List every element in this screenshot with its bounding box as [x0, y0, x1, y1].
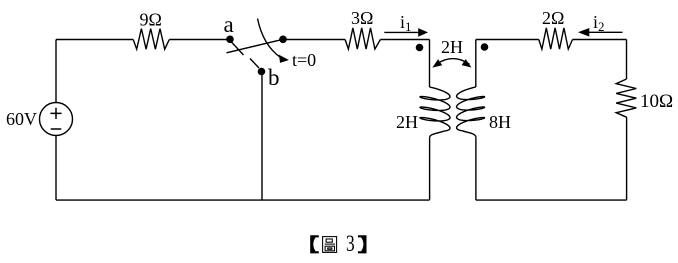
arrowhead switch arc: [279, 55, 289, 63]
wire 9ohm to node a: [169, 39, 227, 41]
arrowhead i2: [578, 28, 589, 37]
switch blade: [227, 39, 284, 53]
wire 2ohm to right corner: [573, 39, 627, 41]
svg-text:8H: 8H: [489, 112, 511, 132]
resistor R 2ohm: [539, 28, 573, 49]
polarity dot primary: [416, 44, 424, 52]
wire secondary top: [476, 39, 539, 41]
wire pole to 3ohm: [283, 39, 345, 41]
resistor R 3ohm: [345, 28, 380, 49]
inductor L1 primary coil: [420, 87, 450, 138]
wire 3ohm to primary corner: [380, 39, 429, 41]
wire left rail top: [55, 40, 57, 103]
switch contact stub a: [231, 42, 244, 56]
svg-text:a: a: [224, 12, 234, 37]
arrowhead i1: [418, 28, 428, 37]
inductor L2 secondary coil: [457, 87, 485, 137]
wire secondary top corner down: [475, 40, 477, 88]
svg-text:10Ω: 10Ω: [640, 91, 673, 112]
wire secondary coil bottom: [475, 137, 477, 200]
node b dot: [258, 68, 266, 76]
wire left rail bottom: [55, 136, 57, 201]
switch motion arc: [258, 19, 281, 58]
arrowhead mutual right: [462, 59, 472, 67]
resistor R 9ohm: [133, 29, 169, 50]
current arrow i2 line: [588, 31, 623, 33]
caption glyph tu (figure): [323, 237, 337, 253]
caption numeral 3: [346, 232, 355, 257]
voltage source VS circle: [40, 103, 73, 136]
svg-text:60V: 60V: [6, 109, 37, 129]
wire bottom primary: [56, 199, 430, 201]
svg-text:3: 3: [346, 232, 355, 257]
svg-text:2H: 2H: [441, 37, 463, 57]
plus sign of source: [50, 108, 61, 119]
svg-text:t=0: t=0: [292, 50, 316, 70]
switch pole dot: [279, 36, 287, 44]
wire right rail top: [626, 40, 628, 80]
wire right rail bottom: [626, 117, 628, 200]
switch contact stub b: [250, 59, 259, 69]
current arrow i1 line: [384, 31, 419, 33]
node a dot: [226, 36, 234, 44]
caption bracket left: [310, 235, 319, 253]
wire primary coil bottom: [429, 138, 431, 200]
wire switch b branch: [261, 75, 263, 200]
minus sign of source: [51, 128, 62, 130]
polarity dot secondary: [481, 43, 489, 51]
resistor R 10ohm: [616, 79, 636, 117]
wire top: source to 9ohm: [56, 39, 133, 41]
svg-text:2Ω: 2Ω: [542, 8, 564, 28]
wire bottom secondary: [476, 199, 627, 201]
svg-text:b: b: [268, 65, 280, 90]
svg-text:2H: 2H: [396, 112, 418, 132]
caption bracket right: [358, 235, 367, 253]
svg-text:3Ω: 3Ω: [351, 8, 373, 28]
wire primary top corner down: [429, 40, 431, 88]
arrowhead mutual left: [432, 59, 442, 67]
svg-text:9Ω: 9Ω: [140, 10, 162, 30]
mutual coupling arc: [436, 59, 469, 65]
